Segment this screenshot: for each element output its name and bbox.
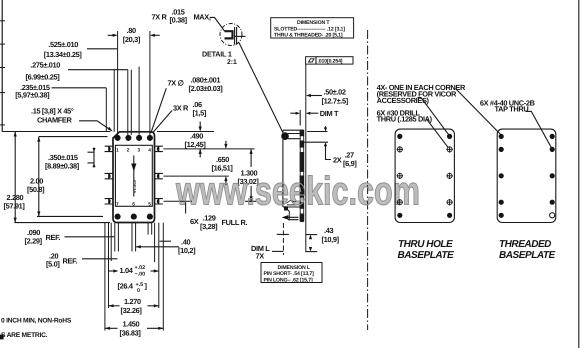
- svg-text:1.450: 1.450: [123, 319, 140, 328]
- side slot right row3: [155, 199, 163, 204]
- svg-text:1.04: 1.04: [120, 266, 134, 275]
- detail 1 pin section: [225, 27, 246, 45]
- datum extension line: [305, 64, 307, 252]
- ext line module right down: [154, 223, 156, 262]
- pin 4 top: [147, 135, 153, 141]
- dimension 1.450: [105, 327, 163, 329]
- svg-text:7X: 7X: [256, 251, 265, 260]
- svg-text:[5.0]: [5.0]: [46, 260, 60, 269]
- leader 3X R: [153, 110, 172, 132]
- plate2 hole TL: [499, 134, 504, 139]
- svg-text:[0.38]: [0.38]: [170, 15, 188, 24]
- svg-text:[10,2]: [10,2]: [178, 246, 196, 255]
- svg-text:REF.: REF.: [46, 233, 61, 242]
- leader detail to side view pin: [239, 43, 283, 133]
- side view break squiggle: [287, 200, 298, 203]
- plate1 drill hole L2: [397, 146, 403, 152]
- svg-text:7X R: 7X R: [152, 13, 168, 22]
- plate2 hole R3: [550, 173, 555, 178]
- dim L tick long: [272, 250, 283, 252]
- dimension 2.00: [37, 137, 108, 217]
- svg-text:.80: .80: [127, 26, 136, 35]
- side view body: [283, 130, 304, 221]
- svg-text:6: 6: [132, 201, 135, 207]
- slot row1 ext right: [164, 148, 255, 150]
- svg-text:DIMENSION L: DIMENSION L: [278, 265, 311, 271]
- pin 7 lead: [115, 223, 119, 252]
- dimension .40: [136, 241, 179, 247]
- svg-text:2: 2: [127, 147, 130, 153]
- dimension 1.270: [109, 305, 159, 307]
- svg-text:S ARE METRIC.: S ARE METRIC.: [1, 332, 48, 339]
- svg-text:THRU (.1285 DIA): THRU (.1285 DIA): [377, 115, 433, 124]
- centerline divider: [367, 30, 369, 330]
- svg-text:2X: 2X: [333, 155, 342, 164]
- svg-text:[10,9]: [10,9]: [322, 235, 340, 244]
- ext line mid left: [110, 223, 112, 261]
- ext line 1.450 left: [104, 223, 106, 331]
- svg-text:THRU HOLE: THRU HOLE: [398, 239, 453, 250]
- pin 1 top: [115, 135, 121, 141]
- svg-text:[12.7±.5]: [12.7±.5]: [322, 97, 349, 106]
- svg-text:ACCESSORIES): ACCESSORIES): [377, 96, 430, 105]
- slot row3 ext right: [164, 200, 193, 202]
- svg-text:PIN LONG-- .62 [15,7]: PIN LONG-- .62 [15,7]: [264, 277, 313, 283]
- svg-text:.50±.02: .50±.02: [324, 88, 346, 97]
- plate2 hole TR: [550, 134, 555, 139]
- svg-text:[57.91]: [57.91]: [4, 202, 26, 211]
- ext line 1.270 right: [158, 223, 160, 308]
- dimension 2.280: [2, 132, 110, 223]
- svg-text:0 INCH MIN, NON-RoHS: 0 INCH MIN, NON-RoHS: [1, 318, 72, 325]
- pin 5 bottom: [147, 214, 153, 220]
- leader 7X R: [210, 17, 225, 31]
- svg-text:[5,97±0.38]: [5,97±0.38]: [15, 90, 50, 99]
- svg-text:BASEPLATE: BASEPLATE: [398, 250, 455, 261]
- dimension .80: [108, 34, 160, 37]
- pin 2 top: [125, 135, 131, 141]
- ext line pin1 up: [117, 31, 119, 135]
- svg-text:[3,28]: [3,28]: [200, 222, 218, 231]
- svg-text:MAX,: MAX,: [194, 13, 211, 22]
- svg-text:.010[0.254]: .010[0.254]: [318, 59, 343, 65]
- plate2 hole L3: [499, 173, 504, 178]
- dimension 1.04: [109, 270, 158, 272]
- left border remnant line: [1, 0, 3, 132]
- svg-text:1: 1: [116, 147, 119, 153]
- dim T arrows: [290, 112, 296, 114]
- dimension .50 leader: [308, 95, 323, 97]
- module top ext right: [157, 131, 214, 133]
- ext line pin2 up: [127, 70, 129, 135]
- svg-text:1.270: 1.270: [124, 297, 141, 306]
- svg-text:THREADED: THREADED: [499, 239, 551, 250]
- plate2 hole BR open: [550, 213, 555, 218]
- threaded baseplate outline: [497, 129, 556, 222]
- svg-text:.525±.010: .525±.010: [48, 40, 78, 49]
- svg-text:REF.: REF.: [63, 256, 78, 265]
- svg-text:−.00: −.00: [135, 271, 146, 277]
- left remnant tick 1: [0, 20, 5, 22]
- svg-text:.43: .43: [324, 226, 333, 235]
- thru hole baseplate outline: [395, 129, 454, 222]
- pin 6 lead: [132, 223, 136, 252]
- svg-text:BASEPLATE: BASEPLATE: [499, 250, 556, 261]
- svg-text:+.5: +.5: [136, 282, 144, 288]
- pin 3 top: [136, 135, 142, 141]
- plate1 corner hole TR: [447, 134, 452, 139]
- side slot right row1: [155, 146, 163, 151]
- svg-text:[2.03±0.03]: [2.03±0.03]: [189, 84, 224, 93]
- ext line 1.270 left: [108, 223, 110, 308]
- leader 7X dia: [151, 88, 167, 133]
- left remnant tick 5: [0, 124, 5, 126]
- flatness feature control frame: [306, 57, 353, 65]
- svg-text:.15 [3,8] X 45°: .15 [3,8] X 45°: [31, 107, 74, 116]
- side slot left row2: [105, 173, 113, 178]
- leader tap thru to plate2: [526, 111, 552, 148]
- plate2 hole BL: [499, 213, 504, 218]
- svg-text:3X R: 3X R: [173, 103, 189, 112]
- svg-text:2:1: 2:1: [227, 59, 237, 66]
- ext line pin4 up: [149, 31, 151, 135]
- svg-text:PIN SHORT- .54 [13,7]: PIN SHORT- .54 [13,7]: [264, 271, 315, 277]
- svg-text:6X: 6X: [190, 217, 199, 226]
- front view module body: [113, 132, 155, 223]
- polarity arrow: [131, 156, 137, 197]
- pin 5 lead short: [148, 223, 152, 235]
- dimension .275 leader: [68, 69, 128, 71]
- ext line extra: [130, 70, 132, 135]
- svg-text:[12,45]: [12,45]: [185, 140, 207, 149]
- svg-text:0: 0: [137, 288, 140, 294]
- svg-text:THRU & THREADED- .20 [5,1]: THRU & THREADED- .20 [5,1]: [274, 32, 343, 38]
- svg-text:www.seekic.com: www.seekic.com: [175, 170, 420, 214]
- svg-text:4: 4: [148, 147, 151, 153]
- plate2 hole L2: [499, 147, 504, 152]
- svg-text:[36.83]: [36.83]: [120, 329, 142, 338]
- svg-text:[13.34±0.25]: [13.34±0.25]: [44, 50, 83, 59]
- side slot left row3: [105, 199, 113, 204]
- dim L extension dashed: [282, 223, 284, 255]
- svg-text:[6,9]: [6,9]: [343, 159, 357, 168]
- svg-text:[2.29]: [2.29]: [25, 236, 43, 245]
- dimension .490: [199, 122, 201, 158]
- svg-text:[1,5]: [1,5]: [193, 108, 207, 117]
- svg-text:DIMENSION T: DIMENSION T: [297, 20, 330, 26]
- dimension 2X .27: [303, 126, 331, 159]
- side view bottom pin joint: [284, 206, 288, 210]
- svg-text:5: 5: [148, 201, 151, 207]
- dimension T box: [271, 18, 354, 39]
- svg-text:[6.99±0.25]: [6.99±0.25]: [26, 73, 61, 82]
- leader 6X drill to plate1: [427, 119, 449, 147]
- detail 1 circle: [220, 24, 242, 46]
- side slot right row2: [155, 173, 163, 178]
- svg-text:DETAIL 1: DETAIL 1: [202, 50, 232, 59]
- svg-text:3: 3: [138, 147, 141, 153]
- ext line pin3 up: [138, 67, 140, 136]
- svg-text:[32.26]: [32.26]: [121, 306, 143, 315]
- side view bottom pin lines: [287, 217, 299, 219]
- left remnant tick 2: [0, 43, 5, 45]
- dimension L box: [261, 263, 322, 284]
- side view bottom pin arrow: [282, 215, 289, 220]
- side view flange edge lines: [299, 130, 301, 221]
- plate1 drill hole R2: [446, 146, 452, 152]
- svg-text:7X ∅: 7X ∅: [168, 79, 185, 88]
- slot row2 ext right: [164, 175, 229, 177]
- svg-text:7: 7: [116, 201, 119, 207]
- leader 4X to plate2 corner: [456, 89, 501, 135]
- plate1 corner hole TL: [397, 134, 402, 139]
- svg-text:[8.89±0.38]: [8.89±0.38]: [45, 161, 80, 170]
- bottom left cropped mark: [0, 335, 4, 340]
- right edge centerline: [578, 0, 580, 348]
- pin 7 bottom: [115, 214, 121, 220]
- ext line 1.450 right: [162, 223, 164, 331]
- plate1 drill hole R3: [446, 173, 452, 179]
- dimension .235 leader: [52, 87, 107, 89]
- dimension 1.300: [245, 149, 256, 201]
- plate1 drill hole L3: [397, 173, 403, 179]
- left remnant tick 4: [0, 92, 5, 94]
- svg-text:DIM T: DIM T: [320, 109, 339, 118]
- svg-text:CHAMFER: CHAMFER: [37, 115, 73, 124]
- side slot left row1: [105, 146, 113, 151]
- svg-text:[50.8]: [50.8]: [27, 185, 45, 194]
- svg-text:V1-2C0: V1-2C0: [133, 180, 137, 193]
- note 6X .129 full r: [185, 201, 187, 213]
- plate2 hole R2: [550, 147, 555, 152]
- front view inner rect: [115, 145, 152, 206]
- plate1 corner hole BL: [397, 213, 402, 218]
- plate2 hole L4: [499, 200, 504, 205]
- dimension .43: [306, 235, 318, 252]
- svg-text:.275±.010: .275±.010: [30, 60, 60, 69]
- plate1 corner hole BR: [447, 213, 452, 218]
- plate1 drill hole L4: [397, 199, 403, 205]
- side view flange solid segments: [300, 130, 304, 222]
- plate1 drill hole R4: [446, 199, 452, 205]
- side view pin shank: [288, 134, 301, 139]
- svg-text:FULL R.: FULL R.: [222, 218, 248, 227]
- svg-text:TAP THRU: TAP THRU: [495, 105, 529, 114]
- svg-text:[26.4: [26.4: [118, 282, 134, 291]
- left remnant tick 3: [0, 67, 5, 69]
- dim L tip line short: [277, 233, 289, 235]
- svg-text:[20,3]: [20,3]: [123, 35, 141, 44]
- plate2 hole R4: [550, 200, 555, 205]
- dimension .650: [225, 141, 227, 185]
- svg-text:+.02: +.02: [135, 265, 146, 271]
- leader 4X to plate1 corner: [418, 98, 450, 136]
- dimension .525 leader: [87, 48, 118, 50]
- ext line corner chamfer up: [113, 70, 115, 132]
- dim T extension tick: [299, 110, 301, 126]
- dimension .350: [88, 148, 96, 168]
- pin 6 bottom: [131, 214, 137, 220]
- side view top pin ball: [282, 133, 289, 140]
